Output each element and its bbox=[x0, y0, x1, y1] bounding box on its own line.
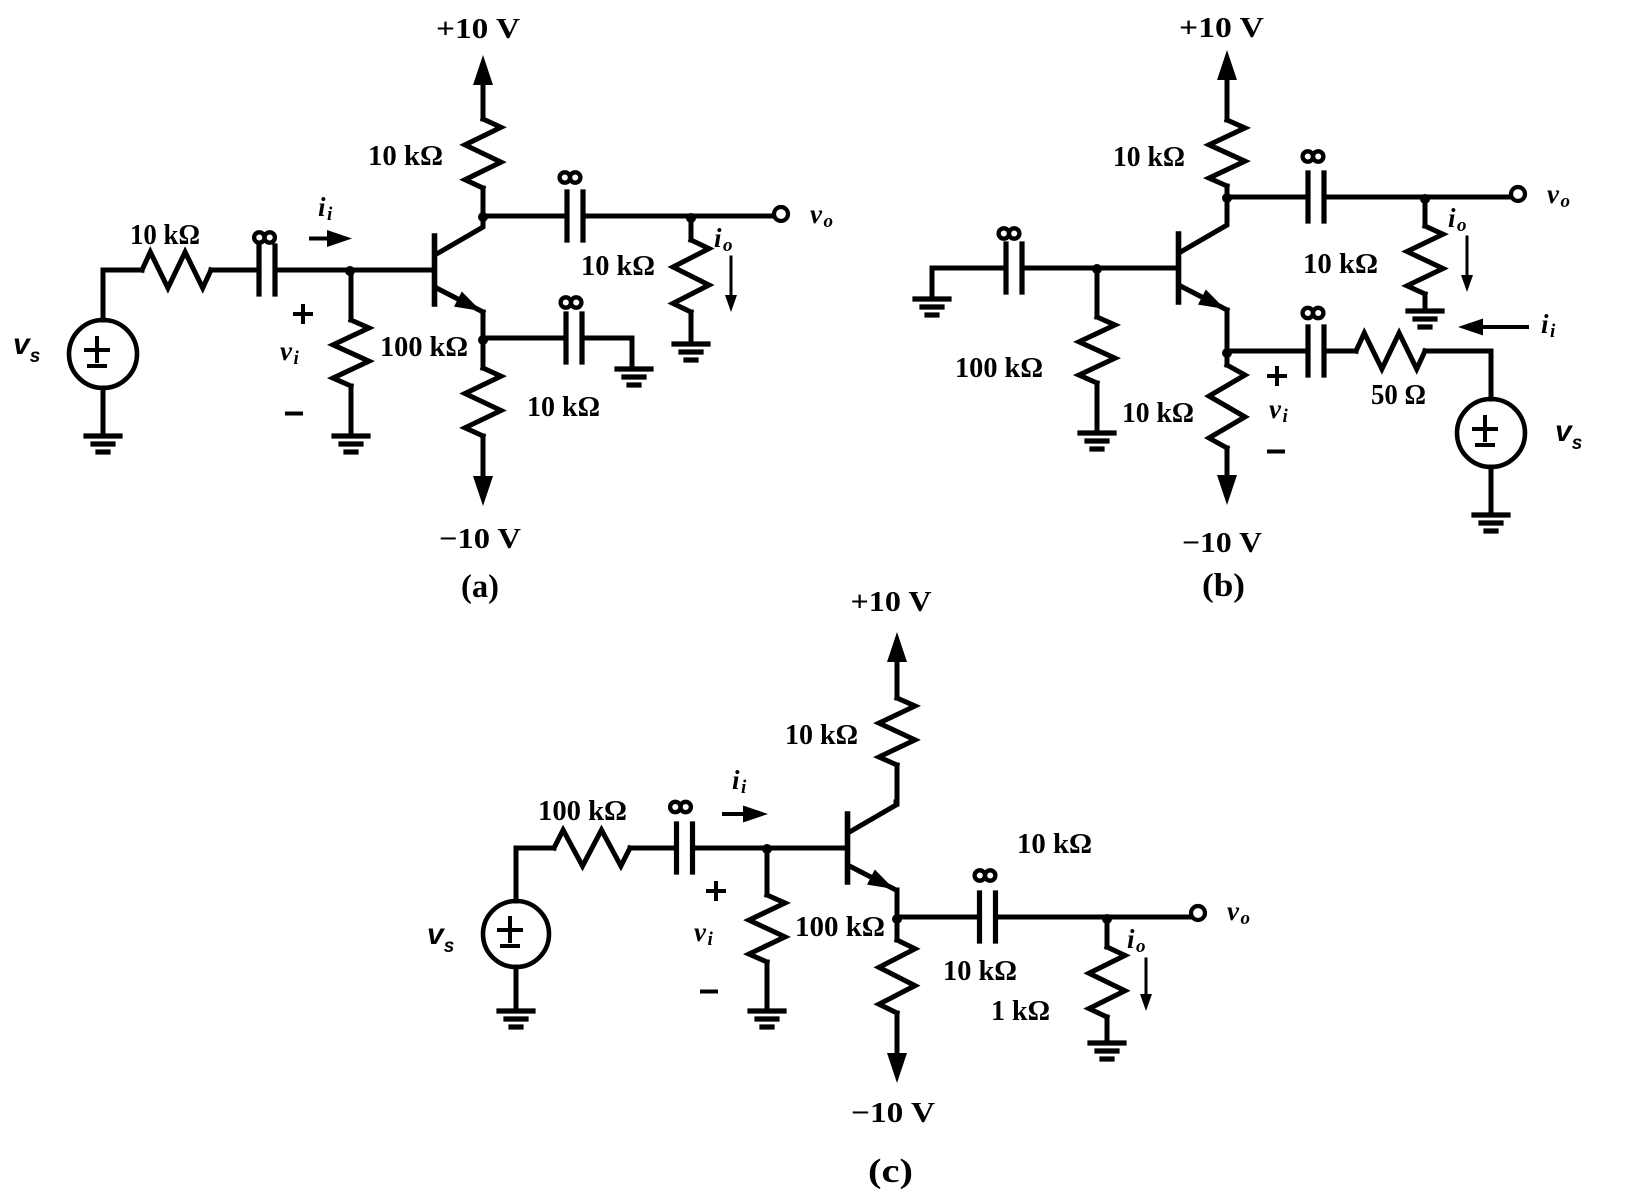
label 10 kΩ load (a) bbox=[581, 250, 655, 282]
base bar Q3 (c) bbox=[845, 814, 851, 882]
resistor 10 kΩ emitter (b) bbox=[1209, 351, 1245, 475]
label 100 kΩ base value (c) bbox=[795, 911, 885, 943]
node dot output (a) bbox=[686, 213, 696, 223]
emitter lead with arrow Q3 (c) bbox=[850, 866, 897, 890]
label vo (c) bbox=[1227, 896, 1250, 929]
wire collector to output cap (b) bbox=[1227, 195, 1308, 200]
label ∞ output cap (b) bbox=[1303, 151, 1324, 161]
label vo (a) bbox=[810, 199, 833, 232]
emitter lead with arrow Q1 (a) bbox=[437, 288, 484, 312]
label io (c) bbox=[1127, 924, 1146, 957]
node dot collector (b) bbox=[1222, 193, 1232, 203]
resistor 100 kΩ base (c) bbox=[749, 848, 785, 1008]
svg-text:+10 V: +10 V bbox=[851, 586, 932, 618]
svg-text:−10 V: −10 V bbox=[439, 523, 521, 555]
svg-text:10 kΩ: 10 kΩ bbox=[527, 391, 600, 423]
wire vs up to input resistor (a) bbox=[103, 270, 142, 320]
supply arrow +10 V (c) bbox=[887, 632, 907, 698]
label 10 kΩ source resistor (a) bbox=[130, 219, 200, 251]
label vs (a) bbox=[13, 328, 40, 367]
supply arrow −10 V (c) bbox=[887, 1013, 907, 1083]
voltage source vs (b) bbox=[1457, 399, 1525, 467]
emitter lead with arrow Q2 (b) bbox=[1181, 286, 1228, 310]
ground under load (b) bbox=[1408, 311, 1442, 327]
resistor 10 kΩ emitter (a) bbox=[465, 338, 501, 476]
node dot base (c) bbox=[762, 844, 772, 854]
current arrow io (c) bbox=[1140, 959, 1152, 1011]
svg-text:−10 V: −10 V bbox=[851, 1097, 935, 1129]
svg-text:1 kΩ: 1 kΩ bbox=[991, 995, 1050, 1027]
label −10 V (b) bbox=[1182, 527, 1262, 559]
ground input (b) bbox=[915, 299, 949, 315]
label 100 kΩ (b) bbox=[955, 352, 1043, 384]
label 100 kΩ source (c) bbox=[538, 795, 627, 827]
label 10 kΩ emitter (b) bbox=[1122, 397, 1194, 429]
svg-text:(c): (c) bbox=[868, 1153, 913, 1190]
svg-text:10 kΩ: 10 kΩ bbox=[1303, 248, 1378, 280]
svg-text:−10 V: −10 V bbox=[1182, 527, 1262, 559]
plus sign vi (c) bbox=[708, 883, 724, 899]
capacitor ∞ input (c) bbox=[677, 824, 693, 872]
wire emitter down to node (b) bbox=[1225, 310, 1230, 351]
resistor 10 kΩ load (a) bbox=[673, 216, 709, 341]
label 10 kΩ load (b) bbox=[1303, 248, 1378, 280]
wire cap to terminal vo (c) bbox=[996, 915, 1190, 920]
label vo (b) bbox=[1547, 179, 1570, 212]
current arrow ii (b) bbox=[1458, 319, 1527, 336]
resistor 10 kΩ collector (c) bbox=[879, 698, 915, 804]
ground under 100 kΩ (a) bbox=[334, 436, 368, 452]
base bar Q2 (b) bbox=[1176, 234, 1182, 302]
resistor 10 kΩ load (b) bbox=[1407, 197, 1443, 308]
supply arrow +10 V (b) bbox=[1217, 50, 1237, 120]
label +10 V (a) bbox=[436, 13, 520, 45]
label −10 V (c) bbox=[851, 1097, 935, 1129]
label vi (b) bbox=[1269, 394, 1288, 427]
wire resistor to capacitor (a) bbox=[211, 268, 259, 273]
resistor 100 kΩ base (a) bbox=[333, 270, 369, 433]
label ∞ bypass cap (a) bbox=[561, 297, 582, 307]
wire cap to base (c) bbox=[693, 846, 845, 851]
label −10 V (a) bbox=[439, 523, 521, 555]
wire resistor to cap (c) bbox=[630, 846, 676, 851]
wire collector to output cap (a) bbox=[483, 214, 567, 219]
supply arrow +10 V (a) bbox=[473, 55, 493, 119]
label (c) bbox=[868, 1153, 913, 1190]
resistor 10 kΩ collector (a) bbox=[465, 119, 501, 216]
label (a) bbox=[461, 569, 499, 605]
node dot output (b) bbox=[1420, 194, 1430, 204]
ground under load (c) bbox=[1090, 1043, 1124, 1059]
resistor 50 Ω (b) bbox=[1356, 333, 1425, 369]
resistor 10 kΩ source (a) bbox=[142, 252, 211, 288]
label ii (b) bbox=[1541, 309, 1556, 342]
current arrow io (a) bbox=[725, 257, 737, 312]
label io (b) bbox=[1448, 203, 1467, 236]
label 50 Ω (b) bbox=[1371, 379, 1426, 411]
svg-text:50 Ω: 50 Ω bbox=[1371, 379, 1426, 411]
wire vs up to resistor (c) bbox=[516, 848, 554, 901]
wire cap to 50 Ω (b) bbox=[1324, 349, 1356, 354]
label ∞ input cap (c) bbox=[670, 802, 691, 812]
wire 50 Ω to source (b) bbox=[1425, 351, 1491, 399]
minus sign vi (b) bbox=[1269, 450, 1283, 454]
wire cap to terminal vo (b) bbox=[1324, 195, 1510, 200]
current arrow ii (c) bbox=[724, 806, 768, 823]
label +10 V (c) bbox=[851, 586, 932, 618]
wire collector up to node (b) bbox=[1225, 197, 1230, 224]
label vi (c) bbox=[694, 917, 713, 950]
ground under 100 kΩ (b) bbox=[1080, 433, 1114, 449]
wire emitter down to node (c) bbox=[895, 890, 900, 917]
collector lead Q1 (a) bbox=[437, 224, 484, 254]
wire cap to output terminal (a) bbox=[583, 214, 773, 219]
label ii (c) bbox=[732, 765, 747, 798]
wire left ground to input cap (b) bbox=[932, 268, 1006, 297]
ground bypass (a) bbox=[617, 369, 651, 385]
plus sign vi (a) bbox=[295, 306, 311, 322]
terminal vo (c) bbox=[1191, 906, 1205, 920]
label 10 kΩ floating (c) bbox=[1017, 828, 1092, 860]
wire emitter to bypass cap (a) bbox=[483, 336, 566, 341]
label ii (a) bbox=[318, 192, 333, 225]
node dot emitter (b) bbox=[1222, 348, 1232, 358]
ground under vs (a) bbox=[86, 436, 120, 452]
svg-text:100 kΩ: 100 kΩ bbox=[538, 795, 627, 827]
label 10 kΩ emitter (a) bbox=[527, 391, 600, 423]
svg-text:10 kΩ: 10 kΩ bbox=[1122, 397, 1194, 429]
label vi (a) bbox=[280, 336, 299, 369]
node dot base (b) bbox=[1092, 264, 1102, 274]
capacitor ∞ output (a) bbox=[567, 192, 583, 240]
capacitor ∞ output (c) bbox=[980, 893, 996, 941]
resistor 100 kΩ source (c) bbox=[554, 830, 630, 866]
terminal vo (b) bbox=[1511, 187, 1525, 201]
node dot emitter (c) bbox=[892, 914, 902, 924]
minus sign vi (c) bbox=[702, 990, 716, 994]
label ∞ output cap (c) bbox=[975, 870, 996, 880]
label (b) bbox=[1202, 568, 1245, 604]
label 10 kΩ collector (c) bbox=[785, 719, 858, 751]
svg-text:100 kΩ: 100 kΩ bbox=[380, 331, 468, 363]
svg-text:100 kΩ: 100 kΩ bbox=[795, 911, 885, 943]
supply arrow −10 V (a) bbox=[473, 436, 493, 506]
label ∞ emitter cap (b) bbox=[1303, 308, 1324, 318]
label 10 kΩ collector (b) bbox=[1113, 141, 1185, 173]
svg-text:(b): (b) bbox=[1202, 568, 1245, 604]
svg-text:+10 V: +10 V bbox=[1179, 12, 1264, 44]
wire vs to ground (a) bbox=[101, 388, 106, 433]
label 10 kΩ collector (a) bbox=[368, 140, 443, 172]
wire vs to ground (c) bbox=[514, 967, 519, 1008]
ground under vs (b) bbox=[1474, 515, 1508, 531]
wire capacitor to base, node vi (a) bbox=[275, 268, 432, 273]
base bar Q1 (a) bbox=[432, 236, 438, 304]
collector lead Q2 (b) bbox=[1181, 222, 1228, 252]
minus sign vi (a) bbox=[287, 412, 301, 416]
capacitor ∞ output (b) bbox=[1308, 173, 1324, 221]
node dot output (c) bbox=[1102, 914, 1112, 924]
collector lead Q3 (c) bbox=[850, 802, 897, 832]
svg-text:+10 V: +10 V bbox=[436, 13, 520, 45]
svg-text:100 kΩ: 100 kΩ bbox=[955, 352, 1043, 384]
capacitor ∞ emitter (b) bbox=[1308, 327, 1324, 375]
resistor 100 kΩ base (b) bbox=[1079, 268, 1115, 430]
label ∞ input cap (b) bbox=[999, 228, 1020, 238]
node dot base (a) bbox=[345, 266, 355, 276]
resistor 10 kΩ collector (b) bbox=[1209, 120, 1245, 197]
current arrow ii (a) bbox=[311, 230, 352, 247]
label io (a) bbox=[714, 223, 733, 256]
label ∞ input cap (a) bbox=[254, 232, 275, 242]
supply arrow −10 V (b) bbox=[1217, 448, 1237, 505]
ground under vs (c) bbox=[499, 1011, 533, 1027]
node dot emitter (a) bbox=[478, 335, 488, 345]
svg-text:10 kΩ: 10 kΩ bbox=[785, 719, 858, 751]
wire emitter down to node (a) bbox=[481, 312, 486, 338]
terminal vo (a) bbox=[774, 207, 788, 221]
label vs (c) bbox=[427, 918, 454, 957]
current arrow io (b) bbox=[1461, 237, 1473, 292]
capacitor ∞ input (a) bbox=[259, 246, 275, 294]
label 1 kΩ (c) bbox=[991, 995, 1050, 1027]
wire bypass cap to ground (a) bbox=[582, 338, 632, 366]
svg-text:10 kΩ: 10 kΩ bbox=[130, 219, 200, 251]
svg-text:10 kΩ: 10 kΩ bbox=[368, 140, 443, 172]
wire cap to base (b) bbox=[1022, 266, 1176, 271]
svg-text:10 kΩ: 10 kΩ bbox=[1113, 141, 1185, 173]
capacitor ∞ input (b) bbox=[1006, 244, 1022, 292]
resistor 1 kΩ load (c) bbox=[1089, 917, 1125, 1040]
wire emitter to output cap (c) bbox=[897, 915, 979, 920]
label 100 kΩ (a) bbox=[380, 331, 468, 363]
ground under base resistor (c) bbox=[750, 1011, 784, 1027]
svg-text:10 kΩ: 10 kΩ bbox=[943, 955, 1017, 987]
label 10 kΩ emitter (c) bbox=[943, 955, 1017, 987]
ground under load (a) bbox=[674, 344, 708, 360]
resistor 10 kΩ emitter (c) bbox=[879, 917, 915, 1051]
wire emitter to cap (b) bbox=[1227, 349, 1308, 354]
node dot collector (a) bbox=[478, 212, 488, 222]
wire collector up to node (a) bbox=[481, 216, 486, 226]
plus sign vi (b) bbox=[1269, 368, 1285, 384]
voltage source vs (c) bbox=[483, 901, 549, 967]
svg-text:10 kΩ: 10 kΩ bbox=[1017, 828, 1092, 860]
label ∞ output cap (a) bbox=[560, 172, 581, 182]
voltage source vs (a) bbox=[69, 320, 137, 388]
wire vs to ground (b) bbox=[1489, 467, 1494, 512]
label vs (b) bbox=[1555, 415, 1582, 454]
capacitor ∞ bypass (a) bbox=[566, 314, 582, 362]
svg-text:10 kΩ: 10 kΩ bbox=[581, 250, 655, 282]
svg-text:(a): (a) bbox=[461, 569, 499, 605]
label +10 V (b) bbox=[1179, 12, 1264, 44]
